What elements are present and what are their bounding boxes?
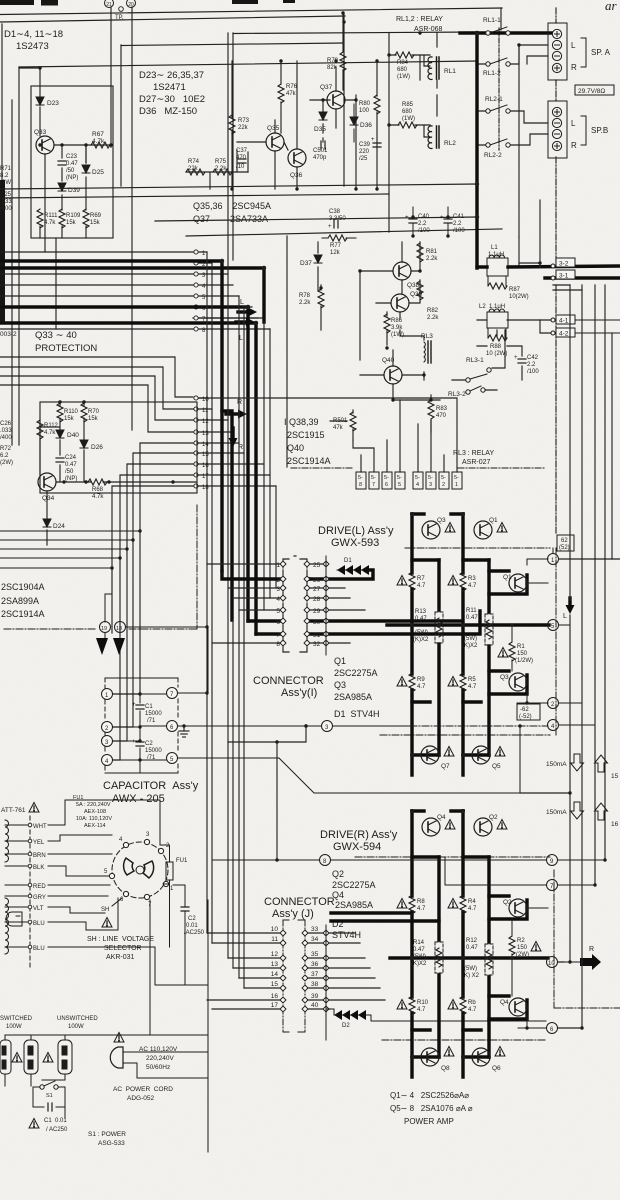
wire q34 internals <box>40 402 196 545</box>
label 150mA lower <box>546 802 584 819</box>
thick frame drive L <box>387 514 549 775</box>
relay contact RL2-2 <box>484 139 510 159</box>
wire dashdot drive L right <box>555 548 557 735</box>
diode D37 <box>300 255 322 267</box>
wire vertical x389 <box>388 33 390 232</box>
svg-text:+: + <box>132 739 136 745</box>
svg-text:32: 32 <box>313 641 321 648</box>
wire RL2-2 to SPB <box>510 134 548 145</box>
terminal circled cap3 <box>102 736 113 747</box>
terminal strip SP.A <box>548 23 567 80</box>
thick arrow L row6 <box>238 299 257 317</box>
svg-text:Q33 ∼ 40: Q33 ∼ 40 <box>35 330 77 341</box>
label selector numbers <box>104 832 174 908</box>
svg-text:3-2: 3-2 <box>559 261 569 268</box>
wire circled1 to rail <box>559 558 620 560</box>
resistor R84 <box>395 52 414 80</box>
wire vertical x519 <box>518 45 520 237</box>
svg-text:Q4: Q4 <box>332 890 344 900</box>
svg-text:Q1: Q1 <box>503 574 512 581</box>
svg-text:47k: 47k <box>333 425 344 431</box>
resistor R80 <box>359 95 380 114</box>
capacitor C37 <box>236 148 248 170</box>
svg-text:/50: /50 <box>65 469 74 475</box>
transformer secondary coil <box>5 898 9 954</box>
svg-text:(1/2W): (1/2W) <box>515 658 533 664</box>
svg-text:BLU: BLU <box>33 946 45 952</box>
label RL1,2 RELAY <box>396 16 443 33</box>
svg-text:30: 30 <box>313 619 321 626</box>
transistor Q2 output <box>503 899 527 917</box>
warning triangle q4d <box>445 820 455 830</box>
svg-text:/ AC250: / AC250 <box>46 1127 68 1133</box>
svg-text:R80: R80 <box>359 101 371 107</box>
svg-text:20: 20 <box>128 2 134 8</box>
wire bundle x276 <box>275 486 277 588</box>
arrow solid 18 <box>113 638 125 655</box>
svg-text:L1: L1 <box>491 245 498 251</box>
diode D25 <box>82 165 104 176</box>
svg-text:4-1: 4-1 <box>559 318 569 325</box>
svg-text:RL3: RL3 <box>421 333 433 340</box>
relay contact RL3-1 <box>466 357 491 382</box>
label SP.A bracket <box>571 38 611 72</box>
wire R111 down <box>39 226 41 238</box>
svg-text:13: 13 <box>271 961 279 968</box>
svg-text:2SC2275A: 2SC2275A <box>332 880 376 890</box>
svg-text:2.2k: 2.2k <box>427 315 439 321</box>
wire band y196 <box>0 194 389 198</box>
svg-text:D27∼30 10E2: D27∼30 10E2 <box>139 94 205 105</box>
svg-text:36: 36 <box>311 961 319 968</box>
terminal circled cap4 <box>102 755 113 766</box>
capacitor C39 <box>359 137 381 162</box>
svg-text:SH : LINE VOLTAGE: SH : LINE VOLTAGE <box>87 936 154 943</box>
svg-text:BLK: BLK <box>33 865 44 871</box>
line voltage selector dashed circle <box>112 842 168 898</box>
svg-text:4.7: 4.7 <box>468 1007 477 1013</box>
thick main rail y958 <box>390 956 548 959</box>
node circles rows 1-8 <box>194 250 198 331</box>
wire RL2-1 to SPB <box>510 111 548 123</box>
svg-text:RL2-1: RL2-1 <box>485 96 503 103</box>
warning triangle att <box>29 803 39 813</box>
wire q33 emitter to rows <box>45 238 56 329</box>
svg-text:R501: R501 <box>333 418 348 424</box>
svg-text:2SC1915: 2SC1915 <box>287 430 325 440</box>
capacitor C1 line <box>44 1103 68 1133</box>
resistor R68 <box>88 479 107 500</box>
warning triangle r9 <box>397 677 407 687</box>
svg-text:(K) X2: (K) X2 <box>462 973 480 979</box>
wire conn I edge vertical <box>325 556 327 655</box>
wire row12 up-fan <box>0 376 193 420</box>
label SWITCHED <box>0 1016 33 1030</box>
wire D23 branch <box>19 68 40 97</box>
svg-text:CONNECTOR: CONNECTOR <box>264 896 335 908</box>
diode D23 <box>36 97 59 107</box>
wire row14 down-feed <box>110 443 193 694</box>
wire Q35 Q36 links <box>237 120 297 189</box>
wire dashdot relay linkage <box>498 28 500 150</box>
svg-text:5-: 5- <box>397 475 402 481</box>
capacitor C1 main <box>132 702 162 724</box>
transistor Q38 <box>393 262 420 289</box>
label 4-2 box <box>556 328 575 338</box>
svg-text:4.7k: 4.7k <box>92 494 104 500</box>
label C26 fragment <box>0 421 12 441</box>
label Q35,36 types <box>193 201 271 224</box>
svg-text:(K)X2: (K)X2 <box>462 643 478 649</box>
wire vertical x356 <box>355 95 357 189</box>
svg-text:C25: C25 <box>0 192 12 198</box>
relay coil RL1 <box>428 57 456 80</box>
svg-text:15: 15 <box>202 452 209 458</box>
svg-text:0.47: 0.47 <box>415 616 427 622</box>
svg-text:27: 27 <box>313 586 321 593</box>
wire row5 left <box>0 295 193 297</box>
wire R84 to RL1 <box>389 55 430 80</box>
svg-text:Q4: Q4 <box>437 814 446 821</box>
svg-text:5-: 5- <box>454 475 459 481</box>
svg-text:AC POWER CORD: AC POWER CORD <box>113 1086 173 1093</box>
resistor R7 <box>409 572 426 591</box>
svg-text:38: 38 <box>311 981 319 988</box>
svg-text:STV4H: STV4H <box>332 930 361 940</box>
wire band y219 <box>155 217 477 221</box>
terminal circled 9 <box>547 855 558 866</box>
resistor R3 <box>460 572 477 591</box>
svg-text:(K)X2: (K)X2 <box>411 961 427 967</box>
terminal circled cap1 <box>102 689 113 700</box>
svg-text:RL3-1: RL3-1 <box>466 357 484 364</box>
capacitor C42 <box>514 355 539 375</box>
svg-text:22k: 22k <box>238 125 249 131</box>
svg-text:L: L <box>563 613 567 620</box>
warning triangle r1 <box>498 648 508 658</box>
svg-text:Q35: Q35 <box>267 125 280 132</box>
wire vertical x501 top <box>500 8 502 30</box>
svg-text:15000: 15000 <box>145 711 162 717</box>
svg-text:+: + <box>440 215 444 221</box>
wire R85 to RL2 <box>389 125 430 137</box>
wire rail x595 <box>594 285 596 885</box>
svg-text:L: L <box>571 119 576 128</box>
svg-text:AWX - 205: AWX - 205 <box>112 793 165 805</box>
wire box left x287 <box>286 236 288 467</box>
resistor R77 <box>322 235 356 256</box>
wire conn I rows right <box>307 564 365 643</box>
wire L label stub <box>559 624 570 626</box>
resistor R86 <box>384 314 404 338</box>
wire Q33 emitter down <box>44 154 46 238</box>
svg-text:12k: 12k <box>330 250 341 256</box>
wire row4 left <box>0 284 193 286</box>
svg-text:D26: D26 <box>91 444 103 451</box>
wire row8 left <box>0 328 193 330</box>
svg-text:15: 15 <box>271 981 279 988</box>
relay contact RL1-2 <box>483 58 510 77</box>
svg-text:D37: D37 <box>300 260 312 267</box>
svg-text:Q5: Q5 <box>492 763 501 770</box>
svg-text:6: 6 <box>276 619 280 626</box>
label CONNECTOR Assy I <box>253 675 324 699</box>
label CAPACITOR Assy <box>103 780 199 805</box>
wire circled2 link <box>517 690 548 703</box>
svg-text:(1W): (1W) <box>402 116 415 122</box>
svg-text:+: + <box>371 137 375 143</box>
svg-text:62: 62 <box>561 538 568 544</box>
svg-text:12: 12 <box>202 419 209 425</box>
outlet 3 <box>58 1040 72 1074</box>
svg-text:4: 4 <box>416 482 419 488</box>
svg-text:/71: /71 <box>147 718 156 724</box>
svg-text:D1: D1 <box>344 558 352 564</box>
svg-text:Q3: Q3 <box>437 517 446 524</box>
wire vertical x232 R73 <box>231 61 233 189</box>
label CONNECTOR Assy J <box>264 896 335 920</box>
wire stubs above 5-x <box>199 398 457 472</box>
svg-text:C42: C42 <box>527 355 539 361</box>
wire rail x570 <box>558 285 570 962</box>
wire D37 <box>317 242 319 290</box>
warning triangle r7 <box>397 576 407 586</box>
thick arrow L down right <box>566 598 575 614</box>
label numbers conn J right <box>311 926 319 1009</box>
svg-text:C1: C1 <box>145 704 153 710</box>
svg-text:15k: 15k <box>88 416 99 422</box>
thick vert q2 leg R <box>461 811 464 1077</box>
svg-text:10A: 110,120V: 10A: 110,120V <box>76 816 112 822</box>
wire dashdot chassis below SPB <box>555 157 557 262</box>
svg-text:R8: R8 <box>417 899 425 905</box>
capacitor C24 <box>56 455 77 482</box>
svg-text:19: 19 <box>101 626 107 632</box>
svg-text:.033: .033 <box>0 428 12 434</box>
svg-text:GWX-593: GWX-593 <box>331 537 379 549</box>
wire base rail <box>54 144 111 146</box>
svg-text:R74: R74 <box>188 159 200 165</box>
svg-text:10: 10 <box>271 926 279 933</box>
resistor R9 <box>409 673 426 692</box>
resistor R79 <box>327 52 346 71</box>
svg-text:31: 31 <box>313 632 321 639</box>
wire vertical left x2 <box>1 24 3 180</box>
wire circled4 right <box>559 724 595 726</box>
diode D39 <box>58 183 80 194</box>
wire y793 cross <box>520 792 570 794</box>
label numbers conn I right <box>313 562 321 648</box>
svg-text:+: + <box>132 702 136 708</box>
svg-text:R88: R88 <box>490 344 502 350</box>
wire RL3 switches feed <box>452 330 505 390</box>
resistor R12 box <box>462 938 493 979</box>
svg-text:13: 13 <box>202 431 209 437</box>
svg-text:C26: C26 <box>0 421 12 427</box>
thick vert r13 leg <box>437 560 440 755</box>
wire dashdot y467 right <box>458 467 545 469</box>
top edge black bar 2 <box>41 0 58 6</box>
svg-text:(2W): (2W) <box>0 460 13 466</box>
wire vertical x377 <box>376 61 378 189</box>
svg-text:5-: 5- <box>371 475 376 481</box>
svg-text:34: 34 <box>311 936 319 943</box>
svg-text:4.7k: 4.7k <box>92 138 105 145</box>
thick vert r14 leg <box>437 857 440 1057</box>
wire row18 down-feed <box>112 486 193 633</box>
svg-text:37: 37 <box>311 971 319 978</box>
svg-text:33: 33 <box>311 926 319 933</box>
svg-text:R87: R87 <box>509 287 521 293</box>
transistor Q2 driver <box>474 814 498 836</box>
svg-text:Q2: Q2 <box>332 869 344 879</box>
svg-text:150: 150 <box>517 651 528 657</box>
svg-text:470: 470 <box>236 155 247 161</box>
svg-text:150mA: 150mA <box>546 809 567 816</box>
svg-text:220,240V: 220,240V <box>146 1055 174 1062</box>
svg-text:RL2: RL2 <box>444 140 456 147</box>
wire C23 leg <box>61 145 63 158</box>
svg-text:1S2473: 1S2473 <box>16 41 49 52</box>
svg-text:16: 16 <box>611 821 619 828</box>
wire vertical from terminal 21 <box>110 7 112 147</box>
label 4-1 box <box>556 315 575 325</box>
selector cam <box>124 858 154 878</box>
resistor R1 <box>509 625 533 671</box>
svg-text:2.2k: 2.2k <box>426 256 438 262</box>
svg-text:4: 4 <box>276 596 280 603</box>
svg-text:R5: R5 <box>468 677 476 683</box>
box connector I dashed <box>283 556 307 652</box>
warning triangle q5 <box>495 747 505 757</box>
label R71 fragment <box>0 166 13 186</box>
transistor Q3 output <box>500 673 527 691</box>
wire corner y33 to relay bus <box>233 32 477 34</box>
wire top rail 1 <box>0 8 502 15</box>
resistor R67 <box>91 131 110 148</box>
svg-text:29.7V/8Ω: 29.7V/8Ω <box>578 88 605 95</box>
wire circled1 stub <box>527 548 553 565</box>
connector 5-x boxes <box>356 472 462 489</box>
wire dashdot chassis mid <box>555 285 557 535</box>
svg-text:0.01: 0.01 <box>186 923 198 929</box>
svg-text:5: 5 <box>276 608 280 615</box>
label diode group D23 block <box>139 70 205 117</box>
svg-text:CONNECTOR: CONNECTOR <box>253 675 324 687</box>
svg-text:C2: C2 <box>188 916 196 922</box>
thick bus D1 row <box>309 570 373 579</box>
svg-text:C37: C37 <box>236 148 248 154</box>
label numbers rows 10-18 <box>202 397 209 491</box>
wire RL2-1 feed <box>477 64 488 145</box>
diode D35 <box>314 112 327 133</box>
svg-text:Q36: Q36 <box>290 172 303 179</box>
relay coil RL2 <box>428 126 456 149</box>
top edge black bar right <box>232 0 258 4</box>
svg-text:-62: -62 <box>520 707 529 713</box>
wire row1 left <box>0 251 193 253</box>
thick arrow L row7 <box>236 318 255 343</box>
wire bundle x207 <box>206 252 208 933</box>
svg-text:220: 220 <box>359 149 370 155</box>
wire dashdot chassis between strips <box>555 80 557 101</box>
resistor R109 <box>59 209 81 228</box>
wire selector right rails <box>150 800 185 985</box>
label AC voltages <box>139 1046 178 1071</box>
svg-text:/50: /50 <box>66 168 75 174</box>
label FU1 ratings <box>73 795 112 829</box>
capacitor C40 <box>405 207 430 236</box>
svg-text:.033: .033 <box>0 199 12 205</box>
svg-text:L: L <box>239 335 243 342</box>
transistor Q36 <box>288 149 306 179</box>
capacitor C2 line <box>173 885 205 947</box>
svg-text:I Q38,39: I Q38,39 <box>284 417 319 427</box>
svg-text:R78: R78 <box>299 293 311 299</box>
warning triangle r3 <box>448 576 458 586</box>
svg-text:AEX-114: AEX-114 <box>84 823 106 829</box>
svg-text:ADG-052: ADG-052 <box>127 1095 154 1102</box>
svg-text:R: R <box>571 63 577 72</box>
wire vertical x277 to circled8 <box>276 742 278 860</box>
svg-text:Q37 2SA733A: Q37 2SA733A <box>193 214 268 224</box>
svg-text:TP.: TP. <box>115 15 124 21</box>
svg-text:26: 26 <box>313 577 321 584</box>
thick vert q1 leg <box>461 514 464 775</box>
svg-text:10 (2W): 10 (2W) <box>486 351 507 357</box>
wire D25 leg <box>85 145 87 163</box>
wire R78 <box>320 285 322 330</box>
warning triangle sh <box>102 918 112 928</box>
wire R501 <box>330 410 353 440</box>
svg-text:14: 14 <box>202 442 209 448</box>
svg-text:(2W): (2W) <box>0 180 13 186</box>
svg-text:Q33: Q33 <box>34 129 47 136</box>
node open circle 4-1 <box>551 318 555 322</box>
resistor R13 box <box>413 609 443 643</box>
svg-text:4.7k: 4.7k <box>44 430 56 436</box>
svg-text:R3: R3 <box>468 576 476 582</box>
terminal circled 5 <box>548 620 559 631</box>
svg-text:/400: /400 <box>0 206 12 212</box>
label 3-1 box <box>556 270 575 280</box>
svg-text:10: 10 <box>548 961 555 967</box>
svg-text:ar: ar <box>605 0 618 13</box>
terminal circled cap2 <box>102 722 113 733</box>
svg-text:Q5∼ 8 2SA1076 ⌀A ⌀: Q5∼ 8 2SA1076 ⌀A ⌀ <box>390 1104 473 1113</box>
wire conn J rows right <box>305 933 385 1009</box>
svg-text:/100: /100 <box>527 369 539 375</box>
wire 4-1 out <box>575 320 620 333</box>
svg-text:S1 : POWER: S1 : POWER <box>88 1131 126 1138</box>
svg-text:Q4: Q4 <box>500 999 509 1006</box>
wire vertical x297 <box>296 61 298 149</box>
thick arrow R row11 <box>226 399 247 419</box>
resistor R6 <box>460 996 477 1015</box>
svg-text:17: 17 <box>202 474 209 480</box>
wire circled4 row dashdot <box>410 725 548 727</box>
wire bottom left vertical <box>207 627 209 1152</box>
box q34 <box>40 402 197 493</box>
terminal circled 8 <box>320 855 331 866</box>
wire circled4 row y725 <box>172 725 410 727</box>
wire horizontal into 3-2 <box>519 262 540 264</box>
wire vertical x540 <box>539 200 541 263</box>
thick vert q4 leg R <box>410 811 413 1077</box>
wire vertical left x19 <box>18 67 20 445</box>
label Q2 Q4 types <box>332 869 376 940</box>
wire vertical x121 <box>120 45 122 186</box>
